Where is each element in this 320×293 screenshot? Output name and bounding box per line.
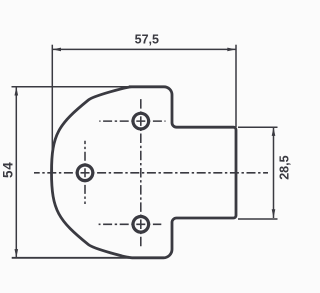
svg-text:57,5: 57,5 [135, 32, 159, 46]
centerline vertical through top+bottom holes [140, 98, 142, 248]
hole top [133, 113, 149, 129]
arrow bottom of 28,5 [272, 209, 276, 218]
extension line left-top horizontal [12, 86, 130, 88]
arrow top of 28,5 [272, 127, 276, 136]
extension line top-right vertical [235, 45, 237, 127]
extension line left-bottom horizontal [12, 257, 129, 259]
hole bottom [133, 217, 149, 233]
arrow bottom of 54 [15, 249, 19, 258]
dimension line 28,5 [273, 127, 275, 218]
centerline horizontal left hole (long) [34, 172, 268, 174]
centerline horizontal bottom hole [99, 223, 162, 225]
arrow left of 57,5 [52, 48, 61, 52]
svg-text:28,5: 28,5 [277, 155, 291, 179]
arrow right of 57,5 [227, 48, 236, 52]
hole left [77, 165, 93, 181]
centerline vertical left hole [84, 141, 86, 204]
svg-text:54: 54 [1, 161, 16, 178]
centerline horizontal top hole [99, 120, 165, 122]
extension line top-left vertical [51, 45, 53, 172]
dimension line 57,5 [52, 48, 236, 50]
dimension line 54 [15, 87, 17, 258]
extension line right-bottom horizontal [238, 218, 278, 220]
plate outline [52, 87, 237, 258]
arrow top of 54 [15, 87, 19, 96]
extension line right-top horizontal [238, 126, 278, 128]
